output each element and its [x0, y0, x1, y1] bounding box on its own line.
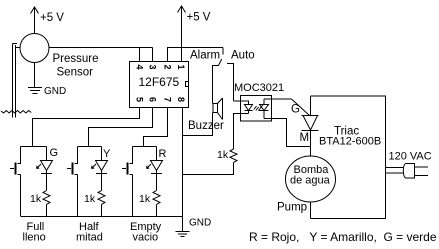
svg-text:Buzzer: Buzzer [188, 120, 224, 132]
svg-text:Pump: Pump [277, 202, 307, 214]
svg-text:Sensor: Sensor [57, 67, 94, 79]
svg-text:1k: 1k [84, 193, 96, 205]
svg-text:1k: 1k [217, 149, 229, 161]
svg-text:1k: 1k [30, 193, 42, 205]
svg-text:GND: GND [189, 218, 211, 229]
svg-text:+5 V: +5 V [187, 12, 211, 24]
svg-text:1k: 1k [139, 193, 151, 205]
svg-text:6: 6 [148, 97, 158, 102]
svg-text:R: R [159, 148, 167, 160]
svg-text:2: 2 [163, 64, 173, 69]
svg-text:Auto: Auto [231, 50, 255, 62]
svg-text:Alarm: Alarm [190, 50, 220, 62]
svg-text:8: 8 [176, 97, 186, 102]
svg-text:1: 1 [176, 64, 186, 69]
svg-text:G: G [291, 104, 300, 116]
svg-text:120 VAC: 120 VAC [389, 151, 432, 163]
svg-text:mitad: mitad [76, 232, 103, 244]
svg-text:BTA12-600B: BTA12-600B [319, 136, 381, 148]
svg-text:lleno: lleno [23, 232, 46, 244]
svg-text:G: G [50, 147, 59, 159]
svg-text:MOC3021: MOC3021 [234, 82, 284, 94]
svg-text:GND: GND [44, 86, 66, 97]
svg-text:3: 3 [148, 64, 158, 69]
svg-text:Pressure: Pressure [53, 53, 99, 65]
svg-text:de agua: de agua [290, 175, 331, 187]
svg-text:vacio: vacio [133, 232, 159, 244]
svg-text:5: 5 [135, 97, 145, 102]
svg-text:4: 4 [135, 64, 145, 69]
svg-text:R = Rojo, Y = Amarillo, G =: R = Rojo, Y = Amarillo, G = verde [249, 230, 437, 244]
svg-text:Y: Y [103, 148, 111, 160]
svg-text:12F675: 12F675 [139, 75, 180, 89]
svg-text:M: M [300, 132, 310, 144]
svg-text:7: 7 [163, 97, 173, 102]
svg-text:+5 V: +5 V [40, 12, 64, 24]
